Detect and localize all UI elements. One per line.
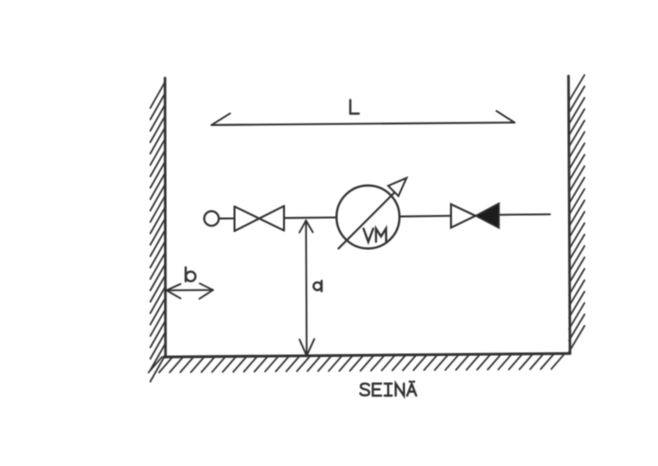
flow meter arrowhead (hollow) xyxy=(388,178,406,196)
dimension b right arrowhead xyxy=(199,284,213,299)
dimension b left arrowhead xyxy=(167,284,181,298)
label b xyxy=(186,267,196,281)
label VM xyxy=(364,229,387,242)
floor hatching xyxy=(149,354,565,373)
wire: valve V2 to right xyxy=(499,213,550,216)
dimension L line xyxy=(212,123,515,126)
label SEINÄ xyxy=(360,382,416,396)
flow meter VM circle xyxy=(337,186,400,249)
label L xyxy=(350,100,359,114)
dimension L left arrowhead xyxy=(212,114,231,126)
label a xyxy=(314,281,322,291)
valve V2 left hollow triangle xyxy=(451,204,476,227)
right wall xyxy=(569,76,571,353)
left wall hatching xyxy=(150,82,165,382)
wire: flow meter to valve V2 xyxy=(400,215,452,218)
dimension L right arrowhead xyxy=(497,111,515,123)
valve V2 right filled triangle xyxy=(476,203,500,228)
source circle (pipe end) xyxy=(204,211,219,226)
dimension b line xyxy=(167,289,214,291)
left wall xyxy=(164,78,167,357)
wire: valve V1 to flow meter xyxy=(284,216,337,219)
right wall hatching xyxy=(569,75,585,352)
floor line xyxy=(164,354,570,358)
dimension a top arrowhead xyxy=(299,221,312,233)
dimension a bottom arrowhead xyxy=(300,339,315,356)
wire: circle to valve V1 xyxy=(219,217,234,219)
valve V1 (gate valve, bowtie) xyxy=(235,206,285,231)
flow meter diagonal adjust line xyxy=(339,193,395,249)
dimension a line xyxy=(305,221,308,356)
